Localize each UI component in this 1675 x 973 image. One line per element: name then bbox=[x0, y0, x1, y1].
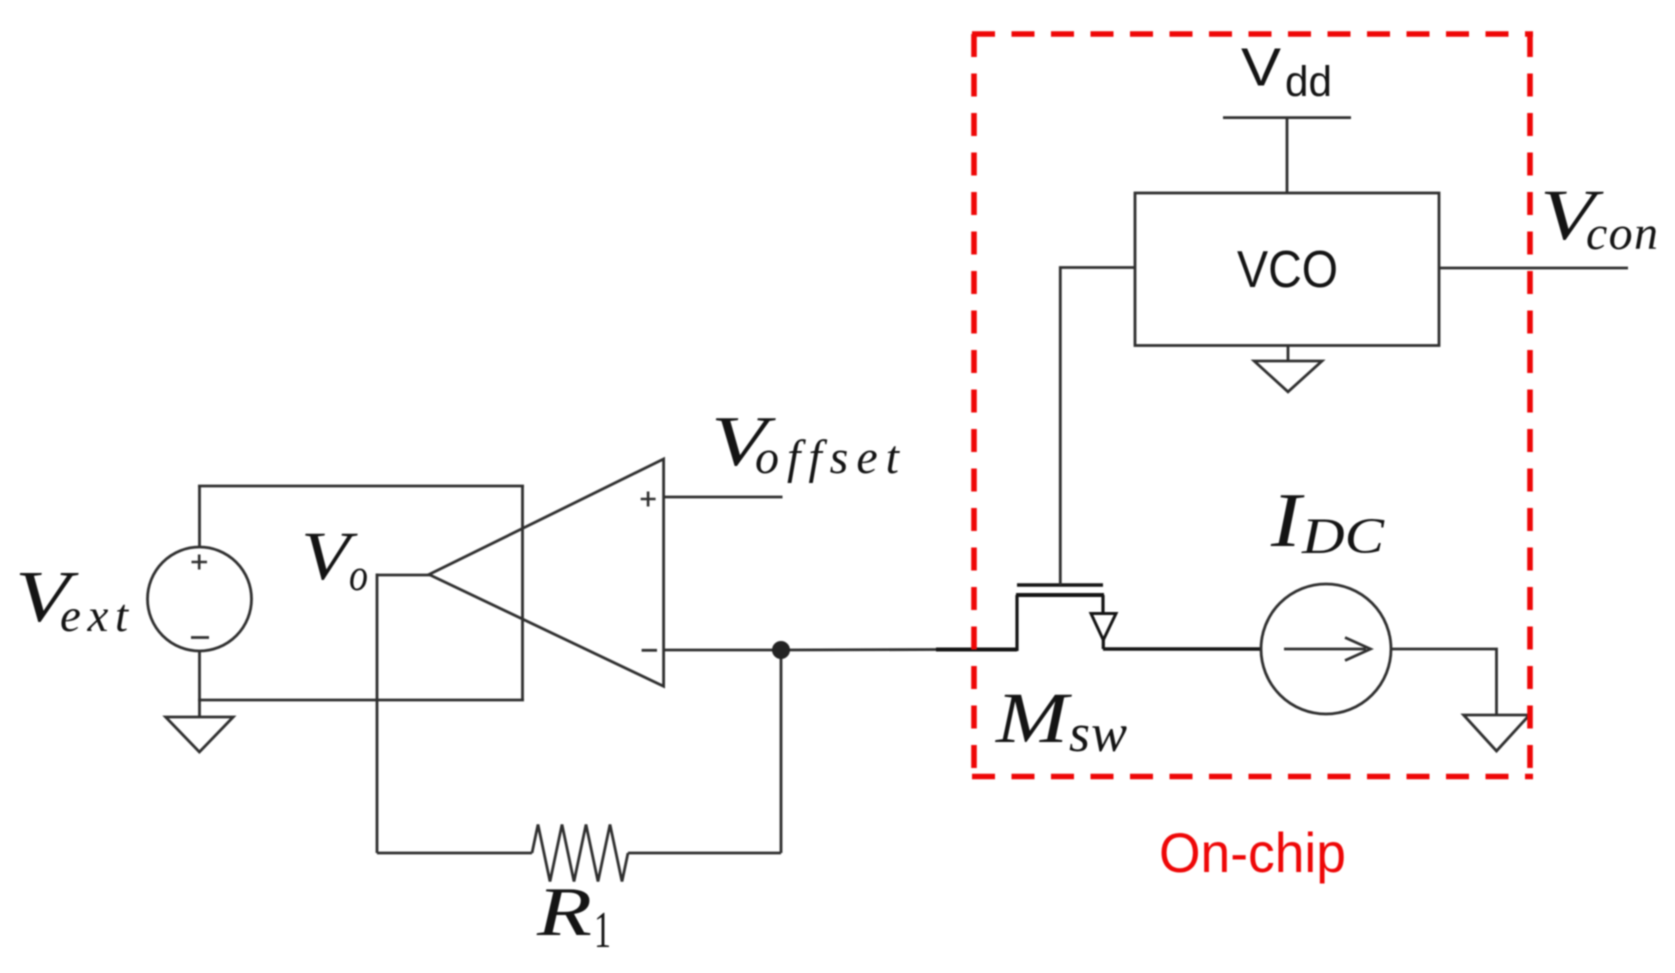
transistor Msw gate bar bbox=[1017, 583, 1103, 586]
wire feedback left vertical bbox=[376, 574, 379, 854]
node A junction dot bbox=[772, 641, 790, 659]
transistor Msw source arrow bbox=[1091, 614, 1116, 641]
svg-text:On-chip: On-chip bbox=[1159, 821, 1346, 884]
wire Vdd rail to VCO bbox=[1286, 118, 1289, 193]
minus mark of Vext bbox=[191, 636, 209, 639]
wire VCO output to Vcon bbox=[1439, 267, 1628, 270]
ground below Vext bbox=[166, 717, 234, 752]
wire Msw gate lead up and to VCO input bbox=[1060, 268, 1135, 586]
dashed On-chip boundary box bbox=[972, 34, 1533, 779]
wire op-amp output Vo bbox=[377, 574, 430, 577]
wire Vext bottom lead bbox=[198, 651, 201, 717]
wire box right side bbox=[521, 486, 524, 700]
wire op-amp plus input to Voffset bbox=[664, 496, 783, 499]
svg-text:dd: dd bbox=[1285, 58, 1332, 106]
op-amp U1 triangle bbox=[429, 459, 664, 686]
ground below IDC bbox=[1464, 715, 1530, 751]
svg-text:I: I bbox=[1270, 477, 1305, 563]
transistor Msw drain lead bbox=[1015, 595, 1018, 651]
wire box top bbox=[198, 485, 524, 488]
wire feedback right vertical to node A bbox=[780, 650, 783, 853]
svg-text:DC: DC bbox=[1301, 509, 1385, 565]
svg-text:R: R bbox=[536, 874, 592, 951]
svg-text:con: con bbox=[1586, 207, 1658, 260]
wire feedback bottom right bbox=[628, 852, 781, 855]
current source IDC arrow bbox=[1284, 638, 1371, 661]
resistor R1 bbox=[532, 825, 628, 882]
voltage source Vext bbox=[148, 547, 252, 651]
svg-text:sw: sw bbox=[1069, 703, 1127, 763]
wire current source to ground bbox=[1391, 649, 1497, 715]
wire Vext top lead bbox=[198, 486, 201, 547]
wire node A to Msw drain bbox=[936, 648, 1017, 652]
wire Msw source to current source bbox=[1103, 647, 1261, 650]
svg-text:o: o bbox=[349, 550, 368, 600]
svg-text:V: V bbox=[1241, 38, 1281, 98]
wire op-amp minus input to node A bbox=[664, 648, 938, 651]
plus mark of op-amp input bbox=[641, 492, 656, 507]
Vdd supply rail bbox=[1223, 116, 1351, 119]
plus mark of Vext bbox=[192, 555, 208, 570]
svg-text:1: 1 bbox=[594, 902, 611, 959]
svg-text:M: M bbox=[995, 678, 1073, 758]
svg-text:ext: ext bbox=[60, 590, 129, 642]
minus mark of op-amp input bbox=[642, 649, 657, 652]
current source IDC circle bbox=[1261, 584, 1391, 714]
transistor Msw source lead lower bbox=[1102, 640, 1105, 649]
wire VCO ground lead bbox=[1287, 346, 1290, 362]
VCO block U2 bbox=[1135, 193, 1439, 346]
svg-text:VCO: VCO bbox=[1237, 241, 1338, 299]
wire feedback bottom left bbox=[377, 852, 532, 855]
svg-text:offset: offset bbox=[755, 431, 901, 484]
wire box bottom bbox=[198, 699, 524, 702]
ground below VCO bbox=[1254, 361, 1322, 392]
transistor Msw channel bar bbox=[1016, 593, 1104, 597]
transistor Msw source lead upper bbox=[1101, 595, 1104, 613]
